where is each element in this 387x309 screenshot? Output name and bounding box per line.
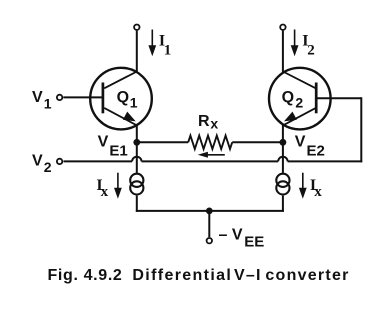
- wire V1 to base Q1: [63, 96, 102, 98]
- svg-text:– V: – V: [219, 227, 243, 244]
- svg-text:R: R: [198, 113, 210, 130]
- wire collector Q2 to top terminal: [282, 31, 284, 72]
- svg-text:1: 1: [130, 95, 138, 111]
- svg-text:x: x: [314, 184, 322, 200]
- hop over right emitter wire: [278, 157, 287, 162]
- resistor Rx: [188, 136, 232, 149]
- terminal I2 top: [280, 25, 285, 30]
- wire collector Q1 to top terminal: [136, 31, 138, 72]
- wire bottom rail: [136, 210, 284, 212]
- svg-text:E2: E2: [307, 142, 325, 159]
- current source Ix right: [276, 174, 289, 195]
- transistor Q2: [269, 68, 331, 130]
- wire emitter Q2 down to node VE2 and current source: [282, 125, 284, 173]
- label Rx: [198, 113, 218, 132]
- label I2: [302, 33, 314, 59]
- label -VEE: [219, 227, 265, 251]
- svg-text:V: V: [32, 153, 43, 170]
- wire right vertical from base Q2 down to V2 line: [360, 97, 362, 162]
- terminal V1: [57, 95, 62, 100]
- label Q1: [117, 89, 138, 111]
- wire emitter Q1 down to node VE1 and current source: [136, 125, 138, 173]
- label I1: [159, 33, 171, 59]
- terminal V2: [57, 159, 62, 164]
- label VE2: [295, 133, 325, 159]
- transistor Q1: [90, 68, 152, 130]
- wire V2 horizontal between hops: [142, 160, 279, 162]
- terminal I1 top: [134, 25, 139, 30]
- svg-text:Q: Q: [117, 89, 129, 106]
- svg-text:converter: converter: [265, 267, 349, 284]
- wire V2 horizontal with hop over Q1 emitter: [64, 160, 133, 162]
- svg-text:1: 1: [44, 96, 52, 112]
- label V1: [32, 89, 52, 112]
- arrow Ix right: [299, 173, 307, 199]
- terminal -VEE: [207, 238, 212, 243]
- label V2: [32, 153, 52, 176]
- svg-text:1: 1: [164, 43, 172, 59]
- svg-text:Fig. 4.9.2: Fig. 4.9.2: [48, 267, 123, 284]
- svg-text:x: x: [101, 184, 109, 200]
- node VE2 junction dot: [280, 139, 287, 146]
- label Ix left: [96, 177, 108, 200]
- svg-text:E1: E1: [109, 142, 127, 159]
- label Q2: [282, 89, 304, 111]
- bottom rail junction dot: [206, 208, 213, 215]
- current arrow through Rx (leftward): [198, 152, 225, 158]
- label VE1: [98, 133, 128, 159]
- svg-text:2: 2: [307, 43, 315, 59]
- svg-text:x: x: [210, 115, 218, 131]
- svg-text:V: V: [295, 133, 306, 150]
- svg-text:2: 2: [295, 95, 303, 111]
- arrow Ix left: [114, 173, 122, 199]
- svg-text:V–I: V–I: [234, 267, 262, 284]
- svg-text:V: V: [32, 89, 43, 106]
- label Ix right: [310, 177, 322, 200]
- wire right current source to bottom rail: [282, 196, 284, 212]
- wire left current source to bottom rail: [136, 196, 138, 212]
- svg-text:2: 2: [44, 159, 52, 175]
- current source Ix left: [130, 174, 143, 195]
- wire resistor Rx right lead to node VE2: [232, 141, 283, 143]
- node VE1 junction dot: [133, 139, 140, 146]
- wire base Q2 to right vertical: [317, 97, 361, 99]
- svg-text:EE: EE: [244, 234, 264, 251]
- arrow I1: [148, 30, 156, 57]
- hop over left emitter wire: [132, 157, 141, 162]
- svg-text:V: V: [98, 133, 109, 150]
- arrow I2: [291, 30, 299, 57]
- svg-text:Q: Q: [282, 89, 294, 106]
- wire node VE1 to resistor Rx left lead: [137, 141, 188, 143]
- wire to -VEE terminal: [208, 211, 210, 237]
- svg-text:Differential: Differential: [132, 267, 232, 284]
- wire V2 horizontal to right vertical: [288, 160, 363, 162]
